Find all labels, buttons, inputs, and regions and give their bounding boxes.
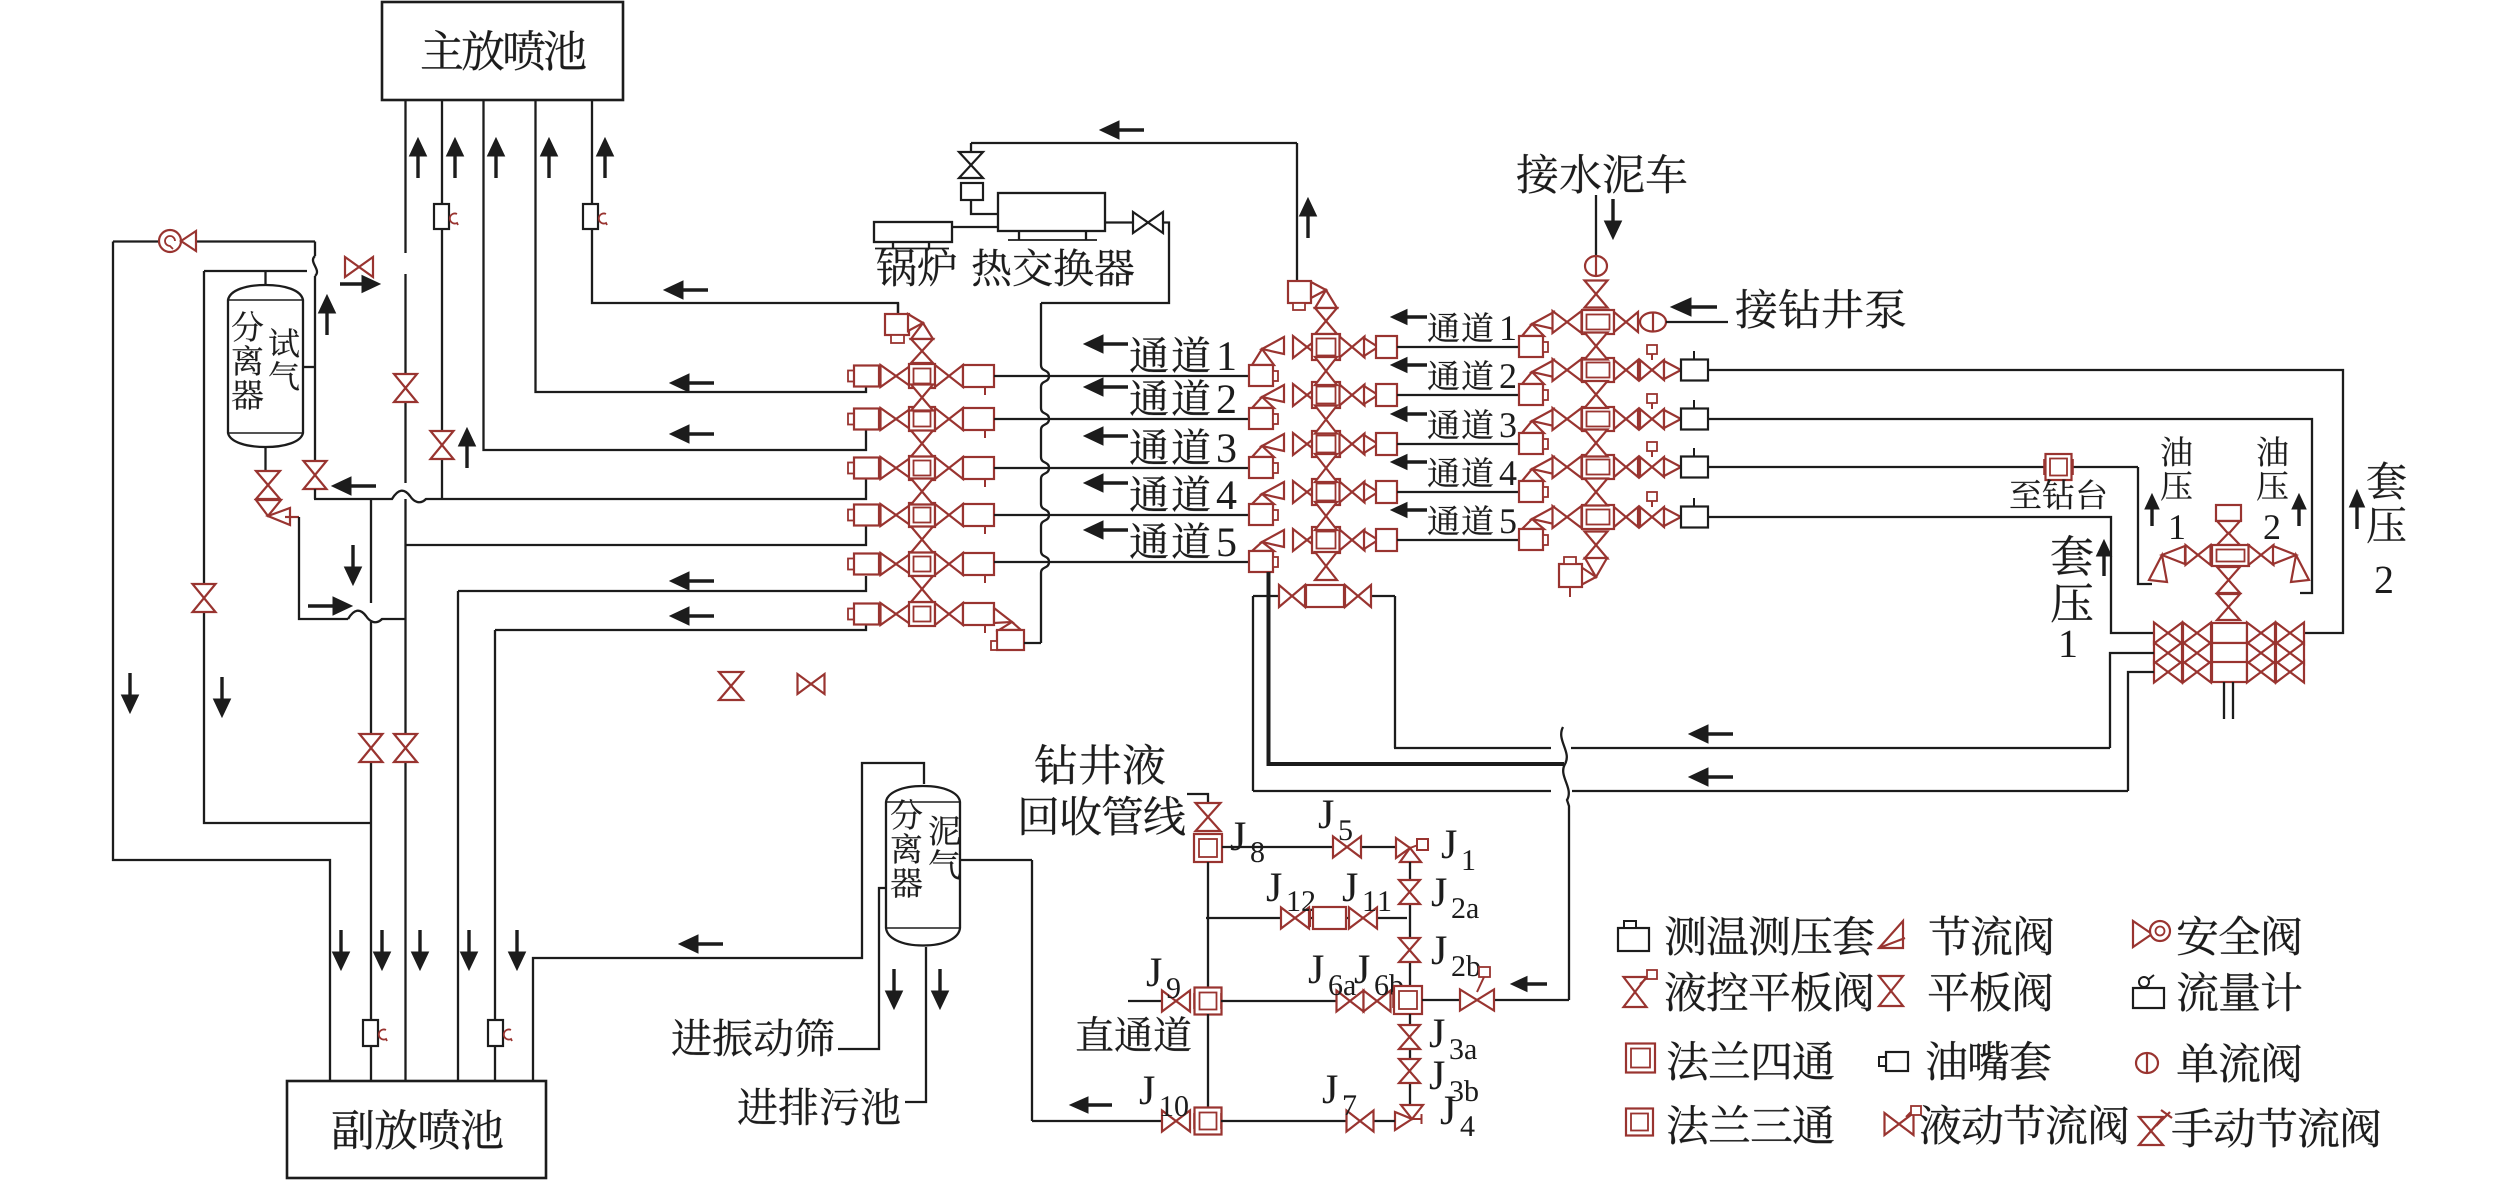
flow arrow down mid drop: [345, 545, 362, 585]
wire middle manifold bottom right drop: [1394, 596, 1396, 748]
inlet manual valve: [1460, 967, 1494, 1011]
flow arrow up right riser: [319, 295, 336, 335]
wire return line C: [1253, 790, 2128, 792]
wire row2 line to casing2: [1708, 370, 2343, 633]
flow arrow down left loop: [214, 677, 231, 717]
wire channel 5 middle segment: [1397, 539, 1519, 541]
channel label 通道1 right: [1391, 310, 1515, 343]
throttle valve J1: [1396, 838, 1428, 862]
wellhead tree assembly: [2149, 505, 2309, 683]
label 油压1: [2145, 436, 2192, 539]
wire separator right riser upper: [313, 242, 317, 467]
boiler box 锅炉: [874, 222, 952, 242]
wire middle manifold bottom left drop: [1252, 596, 1254, 791]
flow arrows into secondary pool: [333, 930, 526, 970]
wire safety line: [113, 240, 315, 242]
flange cross J6: [1393, 986, 1422, 1014]
valve on left loop: [193, 584, 216, 612]
flow arrow left inlet: [1511, 977, 1547, 992]
wire channel 1 left segment: [994, 375, 1249, 377]
wire separator top header: [204, 270, 307, 272]
channel label 通道2 left: [1084, 378, 1235, 416]
label J2b: [1432, 936, 1480, 976]
flow arrow left feed2: [670, 425, 714, 443]
wire pump line: [1666, 321, 1728, 323]
legend label 法兰三通: [1668, 1105, 1834, 1144]
wire separator left loop: [204, 271, 371, 823]
label 套压2: [2350, 462, 2406, 593]
right manifold assembly: [1519, 195, 1708, 597]
valve J6b: [1364, 991, 1391, 1012]
label J1: [1442, 830, 1474, 870]
wire mud bottom outlet: [905, 947, 926, 1102]
heat exchanger box 热交换器: [998, 193, 1105, 231]
valve on pool line1 lower: [394, 734, 417, 762]
mud separator label 分离器: [891, 799, 922, 898]
label J4: [1441, 1096, 1475, 1136]
wire tree row3 left return: [2128, 672, 2154, 791]
legend symbol 单流阀: [2136, 1053, 2158, 1073]
valve J3a: [1399, 1025, 1420, 1049]
channel label 通道3 left: [1084, 427, 1235, 465]
label J8: [1231, 822, 1264, 862]
wire separator top nozzle: [264, 271, 266, 285]
label 接水泥车: [1517, 154, 1686, 194]
label 进振动筛: [672, 1018, 833, 1056]
wire mud left outlet: [838, 888, 886, 1049]
valve J2b: [1399, 938, 1420, 962]
channel label 通道5 left: [1084, 521, 1235, 559]
mud separator label 泥气: [929, 816, 960, 880]
wire hx box to exchanger: [971, 200, 998, 214]
valve J7: [1347, 1111, 1374, 1132]
wire J10 line: [1032, 1120, 1162, 1122]
valve J2a: [1399, 880, 1420, 904]
label 直通道: [1077, 1016, 1191, 1052]
mud separator vessel: [886, 786, 960, 946]
flow arrow left hx line: [1100, 121, 1144, 139]
legend label 单流阀: [2178, 1043, 2301, 1083]
channel label 通道3 right: [1391, 407, 1516, 440]
wire pool line4: [536, 100, 867, 392]
label J3b: [1430, 1061, 1478, 1101]
channel label 通道5 right: [1391, 503, 1516, 536]
flow arrow up beside line2 valve: [459, 428, 476, 468]
wire pool line3: [484, 100, 867, 450]
flange cross J9: [1194, 988, 1222, 1015]
wire row3 line to oil2: [1708, 419, 2312, 593]
flow arrow down cement: [1605, 199, 1622, 239]
wire row5 line to casing1: [1708, 517, 2154, 633]
wire mud inlet: [960, 860, 1032, 1121]
valve J10: [1162, 1111, 1190, 1132]
wire J10 to J4: [1221, 1120, 1395, 1122]
wire channel 2 left segment: [994, 418, 1249, 420]
valve separator drain: [256, 471, 280, 499]
wire channel 3 left segment: [994, 467, 1249, 469]
legend label 液动节流阀: [1921, 1105, 2128, 1145]
valve J3b: [1399, 1059, 1420, 1083]
flow arrow left return C: [1689, 768, 1733, 786]
channel label 通道4 left: [1084, 474, 1236, 512]
wire pool line1 lower: [404, 499, 406, 1081]
wire feed5 drop: [457, 591, 459, 1081]
label J5: [1319, 800, 1352, 840]
legend label 安全阀: [2178, 916, 2301, 956]
flow meter J-line box: [1310, 907, 1349, 929]
channel label 通道2 right: [1391, 358, 1515, 391]
label 油压2: [2257, 436, 2306, 539]
wire channel 1 middle segment: [1397, 346, 1519, 348]
wire J9 to J6: [1221, 1000, 1337, 1002]
valve on right riser: [304, 461, 327, 489]
wire hx drop: [970, 143, 972, 153]
wire tree stem: [2224, 682, 2233, 719]
wire feed5 line: [458, 576, 866, 591]
flow arrow up line5: [597, 138, 614, 178]
label 钻井液: [1035, 744, 1165, 785]
wire feed6 line: [495, 624, 866, 630]
main blow-out pool box 主放喷池: [382, 2, 623, 100]
valve J9: [1162, 991, 1190, 1012]
legend label 平板阀: [1929, 972, 2052, 1012]
channel label 通道1 left: [1084, 335, 1234, 373]
label J9: [1147, 958, 1180, 998]
wire mud gas loop: [533, 763, 924, 1081]
heat exchanger feet: [1008, 231, 1097, 240]
label J3a: [1430, 1019, 1477, 1059]
valve on pool line2: [431, 431, 454, 459]
wire J6 to inlet valve: [1422, 999, 1459, 1001]
flow arrow right drain: [308, 597, 352, 615]
label 回收管线: [1022, 796, 1185, 836]
flange cross J8: [1194, 834, 1222, 862]
label J6a J6b: [1309, 955, 1403, 995]
hx label 热交换器: [973, 248, 1134, 286]
wire channel 2 middle segment: [1397, 394, 1519, 396]
wire J1 drop: [1409, 862, 1411, 986]
legend symbol 流量计: [2133, 975, 2164, 1008]
legend symbol 测温测压套: [1618, 921, 1649, 951]
label J7: [1323, 1075, 1356, 1115]
hx small box: [961, 183, 983, 200]
label 套压1: [2051, 535, 2111, 657]
wire pool line5: [592, 100, 898, 314]
label J10: [1140, 1076, 1188, 1116]
secondary blow-out pool box 副放喷池: [287, 1081, 546, 1178]
wire channel 4 left segment: [994, 514, 1249, 516]
left manifold assembly: [848, 303, 1049, 650]
spare valve near line1 gap: [345, 257, 373, 277]
legend label 法兰四通: [1668, 1041, 1834, 1080]
separator vessel 分离器试气: [228, 285, 303, 447]
wire separator gas nozzle: [303, 366, 315, 368]
valve J8: [1196, 803, 1221, 831]
wire hx top line: [971, 142, 1297, 144]
label J12: [1267, 873, 1314, 911]
label 至钻台: [2010, 479, 2105, 509]
flange cross J10: [1194, 1108, 1222, 1135]
wire hx to manifold header: [1041, 223, 1169, 304]
relief symbol on x495: [488, 1020, 512, 1046]
flow arrow left return A: [1689, 725, 1733, 743]
boiler feet: [875, 242, 949, 249]
wire recovery squiggle drop: [1561, 727, 1569, 1000]
throttle valve J4: [1395, 1105, 1423, 1130]
flow arrow left J10 line: [1070, 1097, 1112, 1113]
wire boiler to hx: [952, 226, 998, 228]
flow arrow left feed1: [670, 374, 714, 392]
legend label 油嘴套: [1927, 1041, 2051, 1081]
legend symbol 安全阀: [2133, 921, 2170, 947]
valve J6a: [1337, 991, 1364, 1012]
separator label 试气: [269, 328, 299, 390]
flow arrow left pump: [1671, 298, 1717, 316]
legend symbol 节流阀: [1879, 921, 1905, 948]
boiler label 锅炉: [877, 248, 956, 286]
legend symbol 液控平板阀: [1624, 970, 1658, 1007]
valve on pool line1: [394, 374, 417, 402]
wire J8 to J1: [1222, 846, 1398, 848]
legend symbol 油嘴套: [1879, 1052, 1908, 1071]
wire return line A: [1394, 747, 2110, 749]
legend symbol 手动节流阀: [2139, 1110, 2172, 1145]
wire pool line2: [441, 100, 443, 499]
wire channel 4 middle segment: [1397, 491, 1519, 493]
spare valve horizontal: [798, 674, 825, 694]
wire inlet valve to riser: [1495, 999, 1569, 1001]
flange tee 至钻台 box: [2044, 454, 2073, 480]
flow arrow up line2: [447, 138, 464, 178]
legend label 手动节流阀: [2172, 1108, 2379, 1148]
legend symbol 液动节流阀: [1885, 1106, 1922, 1135]
wire feed6 drop: [494, 630, 496, 1081]
flow arrow left feed5: [670, 572, 714, 590]
relief symbol on line2: [434, 204, 458, 229]
label 进排污池: [738, 1088, 900, 1126]
legend label 测温测压套: [1666, 916, 1874, 956]
legend symbol 平板阀: [1879, 976, 1903, 1006]
middle manifold assembly: [1249, 143, 1397, 607]
label 接钻井泵: [1736, 289, 1905, 329]
wire J8box to J9box: [1207, 862, 1209, 988]
channel label 通道4 right: [1391, 455, 1516, 488]
wire J6 drop: [1409, 1014, 1411, 1105]
flow arrow left on top feed: [664, 281, 708, 299]
spare flat valve: [719, 672, 743, 700]
flow arrow left mud gas: [679, 935, 723, 953]
separator label 分离器: [232, 311, 263, 410]
label J11: [1343, 873, 1390, 911]
valve hx black: [959, 152, 983, 178]
wire drain line: [299, 517, 406, 622]
legend label 流量计: [2178, 972, 2302, 1012]
wire right riser to feed3: [314, 489, 316, 499]
legend label 节流阀: [1930, 916, 2053, 956]
valve J5: [1333, 837, 1361, 858]
label J2a: [1432, 878, 1479, 918]
flow arrows mud outlets: [886, 969, 949, 1009]
safety valve 安全阀: [159, 230, 196, 252]
flow arrow up line4: [541, 138, 558, 178]
wire channel 3 middle segment: [1397, 443, 1519, 445]
valve J12: [1281, 908, 1309, 929]
relief symbol on line5: [583, 204, 607, 229]
wire feed3 line: [314, 479, 866, 502]
hydraulic throttle separator drain: [256, 500, 299, 525]
legend label 液控平板阀: [1666, 972, 1873, 1012]
wire left drop: [113, 242, 330, 1082]
wire pool line1 upper: [404, 100, 406, 483]
wire mid drop line x371: [370, 499, 372, 1081]
wire tree row2 left return: [2110, 653, 2154, 748]
legend symbol 法兰四通: [1626, 1044, 1655, 1073]
wire J9box to J10box: [1207, 1014, 1209, 1107]
wire J9 stub: [1128, 1000, 1162, 1002]
wire recovery thick line: [1269, 572, 1565, 766]
wire row4 line to drill floor: [1708, 467, 2152, 584]
wire J8 pointer: [1187, 794, 1208, 803]
valve right of hx: [1133, 212, 1163, 233]
flow arrow up line1: [410, 138, 427, 178]
flow arrow up middle manifold riser: [1300, 198, 1317, 238]
legend symbol 法兰三通: [1626, 1109, 1653, 1136]
valve J11: [1349, 908, 1377, 929]
flow arrow left feed3: [332, 477, 376, 495]
wire channel 5 left segment: [994, 561, 1249, 563]
flow arrow right near line1 gap: [340, 276, 380, 293]
flow arrow left feed6: [670, 607, 714, 625]
wire separator bottom nozzle: [264, 447, 266, 471]
flow arrow down left drop: [122, 673, 139, 713]
wire J12 line: [1206, 917, 1407, 919]
flow arrow up line3: [488, 138, 505, 178]
valve on mid drop: [360, 734, 383, 762]
relief symbol on x371: [363, 1020, 387, 1046]
wire feed4 line: [406, 525, 867, 545]
